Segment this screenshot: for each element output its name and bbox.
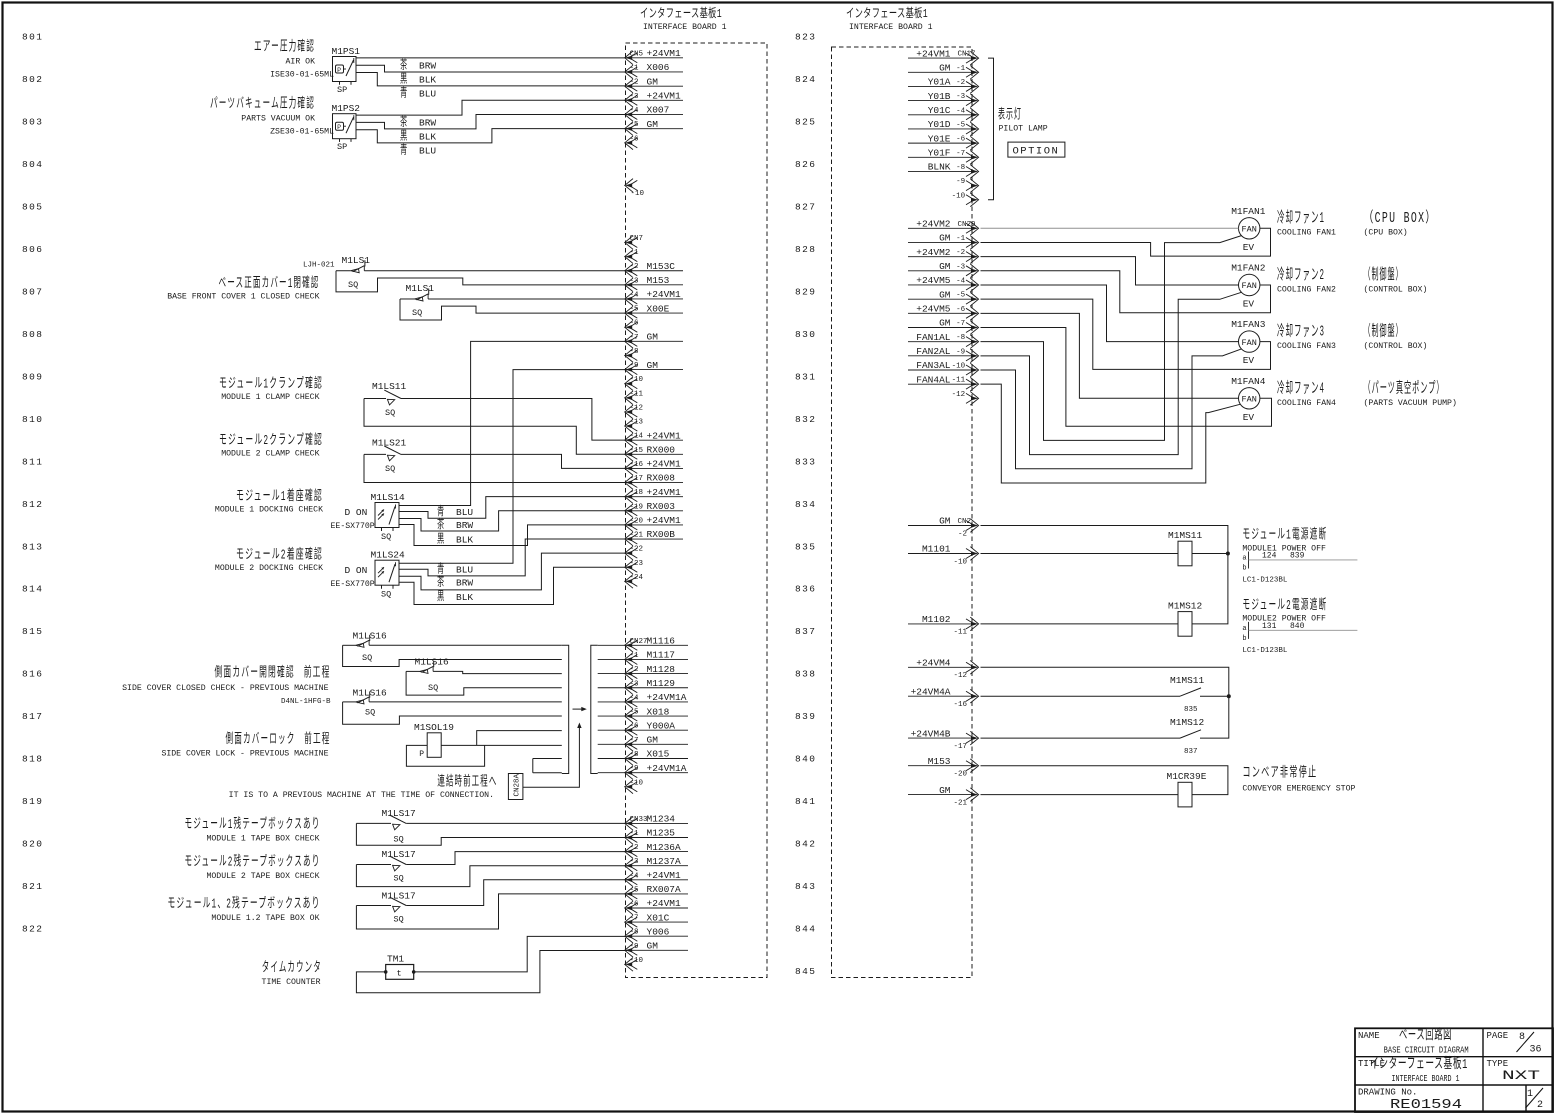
svg-text:-1: -1 (630, 249, 640, 257)
svg-text:-2: -2 (958, 530, 967, 538)
connector CN29 pin -5 (GM) (908, 289, 979, 306)
svg-text:805: 805 (22, 201, 43, 212)
svg-text:-10: -10 (952, 192, 966, 200)
svg-text:SQ: SQ (362, 653, 372, 663)
wire M1LS17#2 to CN33-2 M1236A (406, 852, 627, 865)
svg-text:M1FAN4: M1FAN4 (1231, 376, 1266, 387)
svg-text:タイムカウンタ: タイムカウンタ (262, 959, 322, 976)
svg-text:843: 843 (795, 881, 816, 892)
wire M1LS1 SQ loop to CN7-5 X00E (400, 299, 627, 320)
relay coil M1CR39E (1167, 771, 1207, 807)
svg-text:モジュール2残テープボックスあり: モジュール2残テープボックスあり (185, 853, 321, 870)
svg-text:BLU: BLU (419, 146, 436, 157)
svg-text:SQ: SQ (394, 834, 404, 844)
svg-text:RE01594: RE01594 (1390, 1097, 1462, 1113)
svg-text:840: 840 (1290, 622, 1305, 631)
svg-text:（制御盤）: （制御盤） (1364, 266, 1404, 284)
connector CN7 pin -11 (625, 390, 644, 404)
wire CN29-8 FAN1AL to M1FAN1 (981, 236, 1242, 441)
connector CN27 pin -7 (GM) (625, 735, 688, 752)
connector CN5 pin -10 (625, 179, 645, 199)
svg-text:+24VM2: +24VM2 (916, 219, 951, 230)
connector CN7 pin -16 (+24VM1) (625, 459, 683, 476)
svg-text:-1: -1 (630, 652, 640, 660)
wire M1LS1 SQ loop to CN7-3 M153 (336, 271, 627, 292)
svg-text:(CONTROL BOX): (CONTROL BOX) (1364, 285, 1428, 295)
connector CN7 pin -23 (625, 560, 644, 574)
svg-text:-9: -9 (956, 178, 965, 186)
svg-text:-10: -10 (952, 363, 966, 371)
svg-text:M1128: M1128 (647, 664, 676, 675)
svg-text:821: 821 (22, 881, 43, 892)
svg-text:M1FAN1: M1FAN1 (1231, 206, 1266, 217)
svg-text:(CONTROL BOX): (CONTROL BOX) (1364, 341, 1428, 351)
svg-text:インタフェース基板1: インタフェース基板1 (640, 6, 722, 21)
svg-text:-11: -11 (630, 390, 644, 398)
svg-text:モジュール2電源遮断: モジュール2電源遮断 (1242, 597, 1327, 614)
svg-text:+24VM4A: +24VM4A (911, 686, 951, 697)
connector CN5 pin -3 (+24VM1) (625, 91, 683, 108)
svg-text:PAGE: PAGE (1487, 1031, 1509, 1041)
connector CN7 pin -7 (GM) (625, 332, 683, 349)
svg-text:Y006: Y006 (647, 926, 670, 937)
svg-text:Y01E: Y01E (928, 133, 951, 144)
svg-text:ZSE30-01-65ML: ZSE30-01-65ML (270, 128, 334, 137)
svg-text:SQ: SQ (394, 873, 404, 883)
svg-text:M1LS24: M1LS24 (371, 550, 406, 561)
svg-text:-6: -6 (630, 901, 640, 909)
svg-text:-5: -5 (630, 306, 640, 314)
svg-text:GM: GM (647, 119, 659, 130)
svg-text:RX008: RX008 (647, 473, 676, 484)
svg-text:+24VM1: +24VM1 (647, 515, 682, 526)
svg-text:GM: GM (647, 735, 659, 746)
connector CN7 pin -8 (625, 348, 639, 362)
wire M1LS1 to CN7-2 M153C (364, 270, 627, 272)
svg-text:SQ: SQ (394, 914, 404, 924)
svg-text:FAN3AL: FAN3AL (916, 360, 951, 371)
svg-text:表示灯: 表示灯 (998, 107, 1022, 124)
connector CN5 pin -4 (X007) (625, 105, 683, 122)
wire CN7-7 GM to M1LS14 (399, 341, 627, 505)
svg-text:MODULE 1 DOCKING CHECK: MODULE 1 DOCKING CHECK (215, 506, 323, 515)
svg-text:コンベア非常停止: コンベア非常停止 (1242, 764, 1317, 782)
wire CN29-2 +24VM2 to M1FAN2 (981, 257, 1239, 285)
connector CN5 pin -6 (625, 135, 639, 149)
wire CN2-12 +24VM4 bus to contacts (981, 667, 1229, 738)
svg-text:側面カバーロック 前工程: 側面カバーロック 前工程 (226, 730, 331, 748)
svg-text:SQ: SQ (365, 708, 375, 718)
connector CN7 pin -18 (+24VM1) (625, 487, 683, 504)
svg-text:-3: -3 (630, 277, 640, 285)
svg-text:SQ: SQ (348, 280, 358, 290)
svg-text:モジュール1クランプ確認: モジュール1クランプ確認 (219, 376, 323, 393)
svg-text:819: 819 (22, 796, 43, 807)
svg-text:PARTS VACUUM OK: PARTS VACUUM OK (241, 115, 315, 124)
svg-text:1: 1 (1527, 1089, 1533, 1100)
svg-text:-24: -24 (630, 574, 644, 582)
svg-text:ISE30-01-65ML: ISE30-01-65ML (270, 71, 334, 80)
svg-text:826: 826 (795, 159, 816, 170)
svg-text:+24VM5: +24VM5 (916, 275, 951, 286)
title block (1355, 1028, 1553, 1112)
wire CN28A to bundle (523, 726, 580, 787)
svg-text:-8: -8 (956, 334, 965, 342)
wire M1LS16#2 SQ loop (M1129) (406, 671, 562, 695)
connector CN7 pin -6 (625, 320, 639, 334)
connector CN27 pin -3 (M1129) (625, 678, 688, 695)
connector CN7 pin -19 (RX003) (625, 501, 683, 518)
wire M1LS1 to CN7-4 +24VM1 (428, 298, 627, 300)
svg-text:GM: GM (647, 332, 659, 343)
wire M1PS1 BRW to CN5-1 X006 (356, 65, 627, 72)
svg-text:802: 802 (22, 74, 43, 85)
svg-text:840: 840 (795, 754, 816, 765)
wire M1LS16#1 SQ loop (M1117) (343, 645, 562, 666)
svg-text:+24VM1: +24VM1 (916, 48, 951, 59)
connector CN33 pin -5 (RX007A) (625, 884, 688, 901)
solenoid M1SOL19 (side cover lock) (414, 722, 454, 759)
svg-text:-5: -5 (630, 121, 640, 129)
connector CN7 pin -10 (625, 376, 644, 390)
cooling fan M1FAN1 (1231, 206, 1266, 253)
svg-text:a: a (1242, 625, 1246, 633)
svg-text:EV: EV (1243, 355, 1255, 366)
svg-text:811: 811 (22, 456, 43, 467)
left row numbers 801-822 (22, 32, 43, 935)
svg-text:-9: -9 (630, 765, 639, 773)
svg-text:-9: -9 (956, 348, 965, 356)
svg-text:-5: -5 (956, 292, 966, 300)
wire +24VM1A row to bundle (533, 772, 562, 774)
svg-text:-10: -10 (630, 957, 644, 965)
svg-text:824: 824 (795, 74, 816, 85)
connector CN7 pin -1 (625, 249, 639, 263)
svg-text:2: 2 (1537, 1100, 1543, 1111)
wire M1SOL19 branch to Y000A row (477, 731, 562, 746)
connector CN7 pin -4 (+24VM1) (625, 289, 683, 306)
svg-text:-2: -2 (630, 844, 639, 852)
bundle bracket right [ (591, 645, 598, 773)
svg-text:-20: -20 (953, 771, 967, 779)
interface board 1 dashed box (left, CN5/CN7/CN27/CN33) (626, 43, 768, 978)
svg-text:SIDE COVER CLOSED CHECK - PREV: SIDE COVER CLOSED CHECK - PREVIOUS MACHI… (122, 684, 328, 693)
svg-text:青: 青 (400, 143, 409, 158)
connector CN17 pin -8 (BLNK) (908, 162, 979, 179)
connector CN2 pin -10 (M1101) (908, 544, 979, 567)
svg-text:冷却ファン1: 冷却ファン1 (1277, 209, 1325, 227)
wire CN29-7 GM to M1FAN4 return loop (981, 327, 1272, 426)
svg-text:M1MS12: M1MS12 (1168, 600, 1203, 611)
connector CN27 pin -1 (M1117) (625, 650, 688, 667)
svg-text:-13: -13 (630, 419, 644, 427)
wire (336, 270, 351, 272)
svg-text:822: 822 (22, 924, 43, 935)
wire CN29-3 GM to M1FAN2 return loop (981, 271, 1271, 313)
svg-text:+24VM1: +24VM1 (647, 870, 682, 881)
svg-text:X015: X015 (647, 749, 670, 760)
svg-text:-12: -12 (952, 391, 966, 399)
svg-text:MODULE 1.2 TAPE BOX OK: MODULE 1.2 TAPE BOX OK (211, 914, 319, 923)
svg-text:茶: 茶 (400, 57, 409, 73)
wire M1PS2 to CN5-3 +24VM1 (356, 100, 627, 115)
svg-text:Y01F: Y01F (928, 147, 951, 158)
svg-text:(CPU BOX): (CPU BOX) (1364, 228, 1408, 238)
svg-text:FAN: FAN (1242, 395, 1257, 405)
svg-text:冷却ファン3: 冷却ファン3 (1277, 323, 1325, 341)
svg-text:-19: -19 (630, 503, 644, 511)
svg-text:EE-SX770P: EE-SX770P (331, 580, 375, 589)
svg-text:-7: -7 (956, 150, 965, 158)
svg-text:806: 806 (22, 244, 43, 255)
svg-text:D ON: D ON (345, 565, 368, 576)
svg-text:842: 842 (795, 839, 816, 850)
svg-text:M1FAN2: M1FAN2 (1231, 263, 1266, 274)
svg-text:黒: 黒 (437, 532, 446, 547)
svg-text:黒: 黒 (400, 129, 409, 144)
connector CN33 pin -9 (GM) (625, 941, 688, 958)
svg-text:808: 808 (22, 329, 43, 340)
svg-text:-20: -20 (630, 517, 644, 525)
svg-text:TM1: TM1 (387, 953, 404, 964)
connector CN17 pin -3 (Y01B) (908, 91, 979, 108)
svg-text:X018: X018 (647, 706, 670, 717)
svg-text:M1MS12: M1MS12 (1170, 717, 1205, 728)
svg-text:FAN1AL: FAN1AL (916, 332, 951, 343)
svg-text:M1236A: M1236A (647, 842, 682, 853)
cross reference a/b 131 840 (1242, 622, 1357, 643)
wire M1LS24 BRW to CN7-22 (399, 553, 627, 590)
svg-text:M1LS11: M1LS11 (372, 381, 407, 392)
connector CN29 pin -8 (FAN1AL) (908, 332, 979, 349)
contact M1MS12 (NO) (1170, 717, 1205, 756)
connector CN7 pin -5 (X00E) (625, 303, 683, 320)
svg-text:COOLING FAN4: COOLING FAN4 (1277, 399, 1336, 408)
connector CN29 pin -7 (GM) (908, 318, 979, 335)
contactor coil M1MS11 (1168, 530, 1203, 566)
wire M1LS17#3 to CN33-4 +24VM1 (406, 880, 627, 906)
svg-text:黒: 黒 (400, 72, 409, 87)
svg-text:845: 845 (795, 966, 816, 977)
svg-text:M1PS2: M1PS2 (332, 103, 361, 114)
svg-text:b: b (1242, 635, 1246, 643)
svg-text:-17: -17 (953, 743, 967, 751)
svg-text:830: 830 (795, 329, 816, 340)
svg-text:（CPU BOX）: （CPU BOX） (1364, 209, 1437, 227)
connector CN2 pin -2 (GM) (908, 516, 979, 539)
svg-text:GM: GM (939, 233, 951, 244)
svg-text:+24VM1: +24VM1 (647, 430, 682, 441)
wire (356, 905, 391, 907)
svg-text:820: 820 (22, 839, 43, 850)
svg-text:GM: GM (939, 289, 951, 300)
wire M1PS2 BRW to CN5-4 X007 (356, 115, 627, 129)
svg-text:-1: -1 (956, 65, 966, 73)
svg-text:M1LS17: M1LS17 (382, 808, 416, 819)
svg-text:M1MS11: M1MS11 (1170, 675, 1205, 686)
wire CN2-11 M1102 to M1MS12 coil (981, 623, 1179, 625)
svg-text:M1234: M1234 (647, 814, 676, 825)
svg-text:-3: -3 (630, 93, 640, 101)
svg-text:+24VM1A: +24VM1A (647, 763, 687, 774)
svg-text:EV: EV (1243, 412, 1255, 423)
connector CN27 pin -5 (X018) (625, 706, 688, 723)
svg-text:807: 807 (22, 286, 43, 297)
svg-text:+24VM1A: +24VM1A (647, 692, 687, 703)
pressure switch M1PS2 (PARTS VACUUM OK) (332, 103, 361, 152)
svg-text:SP: SP (337, 142, 347, 152)
connector CN7 pin -15 (RX000) (625, 445, 683, 462)
svg-text:(PARTS VACUUM PUMP): (PARTS VACUUM PUMP) (1364, 398, 1457, 408)
connector CN33 pin -10 (625, 957, 644, 971)
wire (343, 701, 356, 703)
wire jumper X015 to +24VM1A (532, 759, 534, 773)
svg-text:-10: -10 (630, 779, 644, 787)
connector CN27 pin -9 (+24VM1A) (625, 763, 688, 780)
svg-text:CN29: CN29 (958, 221, 976, 229)
bundle arrow (573, 708, 585, 710)
svg-text:803: 803 (22, 116, 43, 127)
wire (364, 453, 386, 455)
svg-text:-8: -8 (630, 348, 639, 356)
connector CN29 pin -11 (FAN4AL) (908, 374, 979, 391)
svg-text:837: 837 (795, 626, 816, 637)
svg-text:-18: -18 (630, 489, 644, 497)
connector CN17 pin -4 (Y01C) (908, 105, 979, 122)
svg-text:+24VM1: +24VM1 (647, 48, 682, 59)
wire (406, 670, 419, 672)
wire CN29-6 +24VM5 to M1FAN4 (981, 313, 1239, 398)
svg-text:D ON: D ON (345, 507, 368, 518)
svg-text:SQ: SQ (412, 308, 422, 318)
svg-text:BLU: BLU (456, 507, 473, 518)
svg-text:+24VM1: +24VM1 (647, 898, 682, 909)
svg-text:P: P (419, 750, 424, 759)
svg-text:828: 828 (795, 244, 816, 255)
svg-text:-4: -4 (630, 107, 640, 115)
connector CN7 pin -17 (RX008) (625, 473, 683, 490)
svg-text:SQ: SQ (428, 683, 438, 693)
svg-text:-12: -12 (953, 672, 967, 680)
wire M1LS21 to CN7-16 +24VM1 (401, 454, 627, 468)
svg-text:パーツバキューム圧力確認: パーツバキューム圧力確認 (210, 96, 315, 113)
bundle bracket left ] (562, 645, 569, 773)
svg-text:エアー圧力確認: エアー圧力確認 (254, 39, 315, 56)
svg-text:OPTION: OPTION (1013, 146, 1060, 158)
svg-text:-3: -3 (630, 858, 640, 866)
svg-text:-22: -22 (630, 546, 644, 554)
svg-text:-3: -3 (956, 93, 966, 101)
svg-text:-11: -11 (952, 377, 966, 385)
wire (356, 822, 391, 824)
wire M1LS17#1 SQ loop to CN33-1 M1235 (356, 823, 627, 845)
wire M1LS16#1 to bundle (M1116) (369, 644, 562, 646)
svg-text:844: 844 (795, 924, 816, 935)
svg-text:BRW: BRW (419, 61, 436, 72)
svg-text:X01C: X01C (647, 912, 670, 923)
svg-text:-14: -14 (630, 433, 644, 441)
svg-text:-8: -8 (630, 751, 639, 759)
svg-text:t: t (397, 969, 402, 979)
wire M1LS16#3 to bundle (+24VM1A) (369, 701, 562, 703)
svg-text:+24VM1: +24VM1 (647, 91, 682, 102)
svg-text:-15: -15 (630, 447, 644, 455)
connector CN7 pin -13 (625, 419, 644, 433)
connector CN33 pin -7 (X01C) (625, 912, 688, 929)
svg-text:X006: X006 (647, 62, 670, 73)
svg-text:（パーツ真空ポンプ）: （パーツ真空ポンプ） (1364, 378, 1445, 397)
svg-text:FAN: FAN (1242, 338, 1257, 348)
svg-text:-1: -1 (630, 830, 640, 838)
svg-text:SP: SP (337, 85, 347, 95)
svg-text:P: P (337, 67, 341, 74)
connector CN29 pin -12 (952, 391, 979, 405)
svg-text:青: 青 (437, 562, 446, 577)
svg-text:-9: -9 (630, 362, 639, 370)
svg-text:-1: -1 (956, 235, 966, 243)
svg-text:側面カバー開閉確認 前工程: 側面カバー開閉確認 前工程 (215, 664, 331, 682)
connector CN33 pin -4 (+24VM1) (625, 870, 688, 887)
svg-text:-2: -2 (630, 263, 639, 271)
svg-text:-10: -10 (631, 190, 645, 198)
connector CN27 pin -0 (M1116) (625, 636, 688, 653)
svg-text:+24VM1: +24VM1 (647, 459, 682, 470)
svg-text:ベース正面カバー1閉確認: ベース正面カバー1閉確認 (219, 275, 320, 292)
svg-text:BLK: BLK (456, 592, 473, 603)
connector CN29 pin -10 (FAN3AL) (908, 360, 979, 377)
svg-text:INTERFACE BOARD 1: INTERFACE BOARD 1 (1392, 1073, 1460, 1084)
svg-text:+24VM4: +24VM4 (916, 658, 951, 669)
connector CN17 pin -1 (GM) (908, 62, 979, 79)
connector CN33 pin -3 (M1237A) (625, 856, 688, 873)
svg-text:M1MS11: M1MS11 (1168, 530, 1203, 541)
right row numbers 823-845 (795, 32, 816, 978)
svg-text:BLK: BLK (419, 75, 436, 86)
connector CN7 pin -2 (M153C) (625, 261, 683, 278)
wire CN29-4 +24VM5 to M1FAN3 (981, 285, 1239, 342)
svg-text:825: 825 (795, 116, 816, 127)
svg-text:-11: -11 (953, 629, 967, 637)
connector CN5 pin 0 (+24VM1) (625, 48, 683, 65)
svg-text:823: 823 (795, 32, 816, 43)
svg-text:FAN: FAN (1242, 281, 1257, 291)
svg-text:BLU: BLU (419, 89, 436, 100)
svg-text:36: 36 (1530, 1045, 1542, 1056)
connector CN27 pin -4 (+24VM1A) (625, 692, 688, 709)
svg-text:-7: -7 (630, 915, 639, 923)
svg-text:M1LS17: M1LS17 (382, 849, 416, 860)
wire (356, 864, 391, 866)
connector CN33 pin -2 (M1236A) (625, 842, 688, 859)
svg-text:8: 8 (1519, 1032, 1525, 1043)
svg-text:INTERFACE BOARD 1: INTERFACE BOARD 1 (849, 23, 933, 32)
svg-text:+24VM2: +24VM2 (916, 247, 951, 258)
wire M1SOL19 to bundle (GM) (441, 744, 562, 746)
svg-text:MODULE 1 CLAMP CHECK: MODULE 1 CLAMP CHECK (221, 393, 319, 402)
svg-text:839: 839 (1290, 552, 1305, 561)
wire M1LS11 SQ loop to CN7-15 RX000 (364, 399, 627, 455)
svg-text:-16: -16 (953, 701, 967, 709)
svg-text:-5: -5 (630, 709, 640, 717)
svg-text:-10: -10 (953, 558, 967, 566)
svg-text:MODULE2 POWER OFF: MODULE2 POWER OFF (1242, 615, 1326, 624)
limit switch M1LS1 contact (lower) (415, 288, 429, 301)
svg-text:EV: EV (1243, 299, 1255, 310)
svg-text:131: 131 (1262, 622, 1277, 631)
svg-text:EE-SX770P: EE-SX770P (331, 522, 375, 531)
wire TM1 to CN33-8 Y006 (414, 936, 627, 972)
connector CN7 pin -14 (+24VM1) (625, 430, 683, 447)
